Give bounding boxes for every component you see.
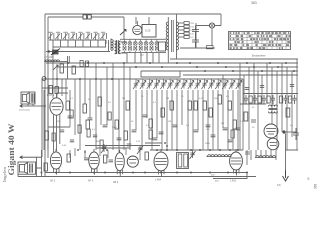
tube V2 — [50, 98, 63, 115]
wire bus y59 — [170, 58, 298, 60]
wire T2 tap 4 — [178, 33, 184, 35]
capacitor C71 — [60, 130, 64, 132]
wire bus y150 — [150, 149, 243, 151]
resistor R18 — [203, 101, 206, 110]
wire T2 bottom leads — [168, 51, 176, 64]
wire switch legs — [53, 40, 106, 47]
capacitor C34 — [228, 140, 233, 142]
wire T2 tap 1 — [178, 22, 184, 24]
resistor R81 — [78, 125, 81, 133]
wire coil bank bottom bus — [122, 52, 166, 54]
tube V4 — [89, 149, 99, 175]
table text speckle — [230, 32, 291, 48]
resistor R21 — [228, 101, 231, 110]
coil L6 lattice-wound — [144, 39, 148, 52]
wire HT drop — [286, 134, 299, 171]
ground arrow — [283, 170, 289, 181]
wire bus y63 — [46, 62, 298, 64]
svg-text:363: 363 — [314, 183, 318, 189]
svg-text:L 464: L 464 — [155, 179, 162, 182]
wire under-switch line — [46, 47, 110, 55]
coil L2 lattice-wound — [123, 39, 127, 52]
trimmer C13 — [202, 79, 208, 89]
capacitor C61 — [109, 160, 114, 162]
capacitor C73 — [70, 140, 74, 142]
resistor R4 — [184, 29, 189, 32]
wire y143 segment — [145, 142, 162, 144]
tube V7 — [154, 149, 168, 176]
svg-text:Gigant 40 W: Gigant 40 W — [6, 123, 16, 175]
wire lamp feed — [196, 14, 221, 48]
transformer T2 primary winding — [166, 22, 168, 51]
svg-text:AB 2: AB 2 — [113, 181, 119, 184]
capacitor C29 — [117, 138, 122, 140]
capacitor C32 — [211, 135, 216, 137]
coil L5 lattice-wound — [139, 39, 143, 52]
speaker LS2 — [21, 92, 35, 104]
node y150 junctions — [156, 149, 158, 151]
tube V8 — [264, 124, 278, 138]
resistor R24 — [194, 101, 197, 110]
svg-text:L 416: L 416 — [230, 180, 237, 183]
resistor R1 — [159, 42, 166, 51]
wire outer top frame — [45, 14, 221, 176]
wire coil bank drops — [127, 53, 159, 63]
fuse F1 — [83, 15, 91, 19]
capacitor C26 — [194, 130, 199, 132]
resistor R63 — [86, 61, 89, 67]
coil L12 filament chain — [207, 155, 232, 157]
wire L9 drops — [45, 56, 69, 79]
wire T2 tap 3 — [178, 29, 184, 31]
node bus junctions — [67, 62, 69, 64]
tube V10 — [230, 149, 243, 176]
arrow speaker2 lead — [20, 105, 46, 108]
wire bus y75 — [183, 74, 298, 76]
resistor R71 — [104, 155, 107, 163]
svg-text:ECH 4: ECH 4 — [47, 94, 55, 97]
capacitor C20 — [88, 118, 93, 120]
transformer T2 secondary winding — [177, 22, 179, 51]
resistor R13 — [115, 120, 118, 129]
coil L7 lattice-wound — [150, 39, 154, 52]
capacitor C50 — [293, 95, 297, 104]
svg-text:1W: 1W — [168, 121, 171, 123]
capacitor C21 — [103, 125, 108, 127]
wire osc connections — [124, 17, 149, 39]
trimmer C75 — [137, 145, 143, 154]
resistor R73 — [44, 163, 47, 171]
resistor R17 — [170, 101, 173, 110]
resistor R43 — [258, 96, 261, 103]
wire anode to edge — [285, 131, 298, 133]
resistor R10 — [66, 101, 69, 110]
capacitor C1 — [192, 26, 199, 37]
capacitor C58 — [290, 85, 294, 87]
wire inner top frame — [48, 17, 124, 158]
wire switch bus — [49, 39, 106, 41]
trimmer C17 — [229, 79, 235, 89]
capacitor C59 — [245, 88, 249, 90]
wire speaker2 drop — [28, 104, 33, 106]
capacitor C42 — [253, 95, 257, 104]
resistor R15 — [149, 119, 152, 128]
arrow speaker lead — [20, 156, 42, 159]
transformer T2 core — [172, 20, 174, 52]
resistor R80 — [70, 110, 73, 118]
svg-text:2M: 2M — [221, 123, 224, 125]
capacitor C30 — [159, 132, 164, 134]
capacitor C27 — [223, 128, 228, 130]
wire right row bus — [240, 94, 298, 105]
resistor R45 — [267, 96, 270, 103]
wire bus y67 — [57, 66, 298, 68]
wire y127 segment — [48, 126, 70, 128]
node junction ring — [42, 77, 46, 81]
wire y88 segment — [42, 87, 68, 89]
capacitor C28 — [68, 116, 73, 118]
capacitor C52 — [293, 128, 299, 140]
wire bus y71 — [141, 70, 298, 72]
capacitor C31 — [206, 125, 211, 127]
tube V1 oscillator — [133, 25, 142, 34]
node bottom junctions — [55, 172, 57, 174]
resistor R9 — [72, 66, 75, 74]
wire bottom right return — [213, 173, 247, 179]
resistor R70 — [67, 154, 70, 162]
resistor R28 — [149, 130, 152, 139]
resistor R27 — [124, 131, 127, 140]
resistor R72 — [145, 152, 148, 160]
resistor R84 — [87, 129, 90, 137]
svg-text:0,6: 0,6 — [277, 183, 281, 187]
coil L11 — [184, 154, 188, 167]
node anode junction — [282, 130, 285, 133]
resistor R7 — [207, 46, 214, 49]
resistor R49 — [288, 96, 291, 103]
trimmer C16 — [222, 79, 228, 89]
svg-text:363: 363 — [251, 1, 257, 5]
capacitor C57 — [260, 86, 264, 88]
wire bottom bus 2 — [18, 176, 256, 178]
svg-text:6.25: 6.25 — [145, 29, 151, 33]
trimmer C11 — [188, 79, 194, 89]
resistor R3 — [184, 25, 189, 28]
resistor R62 — [80, 61, 83, 67]
wire T2 tap 5 — [178, 36, 184, 38]
resistor R20 — [218, 95, 221, 104]
wire V2 pins — [54, 93, 69, 152]
trimmer C5 — [147, 79, 153, 89]
wire y148 segment — [96, 147, 130, 149]
node switch junction — [48, 50, 50, 52]
lamp P1 — [209, 23, 214, 28]
transformer T1 — [115, 40, 121, 54]
resistor R16 — [161, 108, 164, 117]
wire y145 segment — [85, 145, 160, 147]
capacitor C40 — [244, 95, 248, 104]
wire T1 taps — [106, 40, 127, 53]
svg-text:Ersatzrohren: Ersatzrohren — [252, 55, 266, 58]
coil L10 — [178, 154, 182, 167]
inductor L9 — [44, 60, 68, 62]
resistor R61 — [55, 87, 58, 94]
wire heater line — [180, 28, 215, 48]
tube V6 — [127, 156, 138, 167]
trimmer C74 — [101, 144, 107, 153]
wire main bus y79 — [42, 78, 243, 80]
resistor R86 — [100, 140, 103, 148]
capacitor C60 — [84, 158, 89, 160]
resistor R53 — [244, 112, 248, 121]
svg-text:AK 2: AK 2 — [50, 180, 56, 183]
wire left bus drop — [41, 79, 43, 157]
transformer T4 can — [177, 153, 189, 169]
trimmer C14 — [208, 79, 214, 89]
trimmer C7 — [160, 79, 166, 89]
switch bank S1 contacts — [48, 32, 107, 40]
table tube data — [229, 32, 291, 50]
coil L13 filament chain — [255, 156, 276, 158]
switch arrow S3 — [120, 30, 126, 36]
capacitor C25 — [173, 125, 178, 127]
shield box U1 — [142, 25, 156, 38]
resistor R2 — [184, 22, 189, 25]
trimmer C18 — [236, 79, 242, 89]
diode arrow D1 — [53, 65, 58, 70]
wire bottom bus 1 — [45, 172, 247, 174]
svg-text:2M: 2M — [166, 98, 169, 100]
resistor R82 — [108, 112, 111, 120]
wire coil bank top bus — [120, 38, 166, 40]
trimmer C3 — [133, 79, 139, 89]
resistor R22 — [233, 120, 236, 129]
capacitor C56 — [245, 152, 250, 154]
wire speaker drops — [18, 150, 42, 177]
wire right verticals — [240, 59, 297, 150]
capacitor C44 — [262, 95, 266, 104]
capacitor C2 — [192, 36, 199, 48]
speaker LS1 — [18, 162, 36, 174]
trimmer C9 — [174, 79, 180, 89]
capacitor C72 — [127, 144, 131, 146]
capacitor C46 — [271, 95, 275, 104]
wire sub-box — [141, 71, 180, 77]
tube V9 — [267, 138, 279, 150]
resistor R14 — [126, 101, 129, 110]
wire bottom-right verticals — [247, 150, 276, 165]
coil L1 — [111, 39, 113, 51]
svg-text:AF 3: AF 3 — [88, 180, 94, 183]
resistor R83 — [52, 133, 55, 141]
capacitor C33 — [236, 128, 241, 130]
trimmer C6 — [154, 79, 160, 89]
trimmer C15 — [215, 79, 221, 89]
wire switch lower bus — [53, 46, 106, 48]
resistor R11 — [83, 104, 86, 113]
resistor R25 — [45, 131, 48, 140]
trimmer C4 — [140, 79, 146, 89]
transformer T3 IF — [269, 105, 278, 113]
trimmer C12 — [195, 79, 201, 89]
tube V5 — [115, 150, 124, 177]
resistor R52 — [286, 108, 290, 117]
resistor R85 — [231, 130, 234, 138]
rotary switch wafer S2 — [52, 50, 59, 55]
wire T2 tap 2 — [178, 26, 184, 28]
resistor R8 — [60, 64, 63, 73]
resistor R60 — [49, 86, 52, 94]
trimmer C8 — [167, 79, 173, 89]
capacitor C22 — [132, 130, 137, 132]
coil L4 lattice-wound — [133, 39, 137, 52]
resistor R5 — [184, 32, 189, 35]
svg-text:E: E — [308, 177, 310, 181]
svg-text:1M: 1M — [122, 98, 125, 100]
capacitor C23 — [143, 115, 148, 117]
resistor R19 — [209, 108, 212, 117]
capacitor C53 — [251, 120, 256, 122]
wire T2 top leads — [168, 14, 176, 22]
resistor R26 — [86, 120, 89, 129]
resistor R12 — [98, 97, 101, 106]
node cluster dots — [164, 142, 166, 144]
trimmer C55 — [190, 150, 196, 159]
resistor R47 — [279, 96, 282, 103]
resistor R6 — [184, 36, 189, 39]
wire inter-tube stubs — [70, 148, 140, 160]
trimmer C10 — [181, 79, 187, 89]
tube V3 — [50, 149, 61, 175]
wire vertical drops — [44, 55, 243, 152]
capacitor C70 — [93, 135, 97, 137]
capacitor C48 — [284, 95, 288, 104]
capacitor C24 — [153, 138, 158, 140]
coil L3 lattice-wound — [128, 39, 132, 52]
svg-text:Zweitlautspr.: Zweitlautspr. — [19, 109, 31, 112]
resistor R23 — [188, 101, 191, 110]
resistor R41 — [249, 96, 252, 103]
coil L8 lattice-wound — [155, 39, 159, 52]
